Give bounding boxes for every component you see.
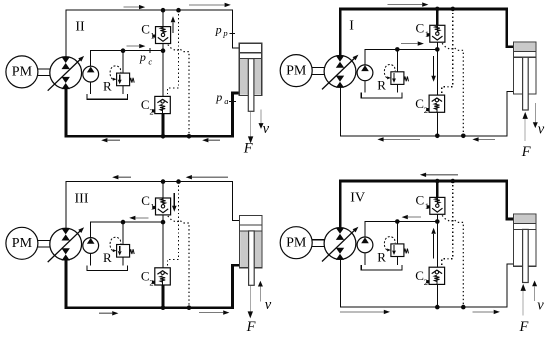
svg-text:IV: IV xyxy=(350,190,365,205)
svg-text:v: v xyxy=(537,297,544,313)
valve C2 I xyxy=(429,95,445,112)
shaft coupling I xyxy=(312,67,324,69)
tank II xyxy=(87,94,128,99)
valve C1 IV xyxy=(430,197,445,214)
svg-text:R: R xyxy=(103,79,112,94)
svg-text:PM: PM xyxy=(286,235,307,250)
wire: pump suction line (thin bottom loop) I xyxy=(340,87,513,136)
velocity arrow v III xyxy=(259,287,261,302)
wire: pump suction line (thin bottom loop) IV xyxy=(340,259,513,307)
piston rod I xyxy=(523,57,529,110)
svg-text:p: p xyxy=(215,22,222,36)
charge flow arrow I xyxy=(401,43,418,45)
wire: valve branch thin segments IV xyxy=(436,214,438,267)
wire: pump delivery line (bold top loop) IV xyxy=(340,181,513,228)
wire: pump delivery line (bold top loop) I xyxy=(340,9,513,56)
branch flow arrow III xyxy=(173,193,175,206)
cylinder IV xyxy=(514,215,535,224)
piston rod III xyxy=(249,231,255,285)
wire: bold stub from valve C2 to bottom rail III xyxy=(162,285,165,308)
wire: pump delivery line (thin top loop) III xyxy=(66,182,240,229)
svg-text:p: p xyxy=(139,50,146,64)
wire: pump return line (bold bottom loop) III xyxy=(66,260,240,308)
charge pump II xyxy=(83,66,99,82)
cylinder II xyxy=(240,59,261,95)
flow arrows II xyxy=(124,6,139,8)
junction nodes IV xyxy=(435,179,440,184)
relief valve R I xyxy=(391,72,404,85)
pilot line to valve C2 (dotted) III xyxy=(168,182,179,268)
svg-text:C: C xyxy=(141,22,150,37)
svg-text:2: 2 xyxy=(149,106,153,116)
variable displacement arrow II xyxy=(48,59,81,90)
wire: pump delivery line (thin top loop) II xyxy=(66,10,239,57)
velocity arrow v IV xyxy=(534,286,536,301)
wire: charge line to junction IV xyxy=(365,222,437,238)
svg-text:1: 1 xyxy=(150,30,154,40)
piston rod II xyxy=(248,59,254,112)
prime mover PM II xyxy=(6,56,38,88)
pump/motor unit P I xyxy=(324,56,356,88)
svg-text:c: c xyxy=(148,56,152,66)
pressure tap p_p II xyxy=(229,33,235,35)
svg-text:v: v xyxy=(538,121,545,137)
pressure tap p_a II xyxy=(229,101,236,103)
wire: charge line to junction III xyxy=(91,222,163,238)
pump/motor unit P II xyxy=(50,57,82,89)
wire: pump return line (bold bottom loop) II xyxy=(66,89,239,137)
prime mover PM I xyxy=(280,55,312,87)
flow arrows I xyxy=(387,4,422,6)
svg-text:F: F xyxy=(246,319,256,335)
pilot line from valve C1 to low-pressure rail (dotted) III xyxy=(168,216,189,308)
tank IV xyxy=(361,265,402,270)
shaft coupling III xyxy=(38,239,50,241)
junction nodes I xyxy=(435,7,440,12)
valve C2 IV xyxy=(429,267,445,284)
svg-text:p: p xyxy=(222,28,227,38)
svg-text:PM: PM xyxy=(12,65,33,80)
variable displacement arrow I xyxy=(322,58,355,89)
wire: relief valve drain III xyxy=(122,256,124,265)
svg-text:F: F xyxy=(519,319,529,335)
wire: relief valve supply III xyxy=(122,222,124,245)
wire: valve branch thin segments I xyxy=(436,42,438,95)
wire: relief valve supply II xyxy=(122,51,124,73)
svg-text:1: 1 xyxy=(425,201,429,211)
svg-text:R: R xyxy=(103,250,112,265)
wire: relief valve drain II xyxy=(122,85,124,94)
wire: bold stub into valve C1 IV xyxy=(436,181,439,197)
pilot line to valve C2 (dotted) IV xyxy=(442,181,453,267)
svg-text:C: C xyxy=(415,268,424,283)
charge pump I xyxy=(357,65,373,81)
cylinder I xyxy=(514,43,535,52)
svg-text:2: 2 xyxy=(424,277,428,287)
charge pump III xyxy=(83,238,99,254)
charge flow arrow II xyxy=(126,45,139,47)
force arrow F III xyxy=(249,286,251,311)
svg-text:F: F xyxy=(521,144,531,160)
wire: relief valve supply I xyxy=(396,49,398,72)
svg-text:F: F xyxy=(243,141,253,157)
pilot line to valve C2 (dotted) I xyxy=(442,9,453,95)
velocity arrow v I xyxy=(534,103,536,122)
wire: relief valve drain IV xyxy=(396,256,398,265)
svg-text:1: 1 xyxy=(150,202,154,212)
force arrow F II xyxy=(250,112,252,136)
force arrow F I xyxy=(524,119,526,141)
wire: relief valve drain I xyxy=(396,84,398,93)
relief valve pilot (dashed) IV xyxy=(384,237,395,250)
svg-text:2: 2 xyxy=(149,278,153,288)
charge pump IV xyxy=(357,237,373,253)
wire: charge pump drain IV xyxy=(364,253,366,265)
valve C2 II xyxy=(155,96,171,113)
svg-text:C: C xyxy=(141,269,150,284)
charge flow arrow III xyxy=(135,217,148,219)
shaft coupling IV xyxy=(312,239,324,241)
wire: charge pump drain II xyxy=(90,82,92,94)
svg-text:III: III xyxy=(75,191,89,206)
charge flow arrow IV xyxy=(408,216,421,218)
relief valve R III xyxy=(117,245,130,258)
svg-text:C: C xyxy=(415,96,424,111)
wire: bold stub from valve C2 to bottom rail II xyxy=(162,114,165,137)
branch flow arrow IV xyxy=(433,234,435,259)
cylinder III xyxy=(240,231,261,267)
svg-text:2: 2 xyxy=(424,105,428,115)
tank I xyxy=(361,93,402,98)
tank III xyxy=(87,265,128,270)
prime mover PM III xyxy=(6,227,38,259)
relief valve pilot (dashed) III xyxy=(110,237,121,250)
svg-text:a: a xyxy=(224,96,228,106)
valve C1 I xyxy=(430,25,445,42)
shaft coupling II xyxy=(38,68,50,70)
flow arrows IV xyxy=(426,174,458,176)
variable displacement arrow III xyxy=(48,231,81,262)
branch flow arrow II xyxy=(172,22,174,33)
relief valve R II xyxy=(117,73,130,86)
pressure tap p_c II xyxy=(149,48,151,53)
svg-text:v: v xyxy=(263,121,270,137)
svg-text:C: C xyxy=(416,193,425,208)
junction nodes II xyxy=(161,8,166,13)
relief valve pilot (dashed) I xyxy=(384,65,395,78)
wire: valve branch thin segments III xyxy=(162,182,164,198)
variable displacement arrow IV xyxy=(322,230,355,261)
svg-text:C: C xyxy=(141,193,150,208)
pilot line from valve C1 to low-pressure rail (dotted) II xyxy=(168,45,189,137)
force arrow F IV xyxy=(522,291,524,316)
svg-text:C: C xyxy=(416,20,425,35)
svg-text:v: v xyxy=(265,297,272,313)
wire: relief valve supply IV xyxy=(396,222,398,245)
relief valve pilot (dashed) II xyxy=(110,66,121,79)
wire: charge pump drain I xyxy=(364,81,366,93)
wire: charge line to junction I xyxy=(365,49,437,65)
svg-text:R: R xyxy=(377,250,386,265)
velocity arrow v II xyxy=(260,109,262,123)
flow arrows III xyxy=(118,176,131,178)
valve C1 III xyxy=(156,198,171,215)
pump/motor unit P IV xyxy=(324,228,356,260)
svg-text:p: p xyxy=(215,90,222,104)
svg-text:II: II xyxy=(75,20,85,35)
piston rod IV xyxy=(523,229,529,282)
pilot line to valve C2 (dotted) II xyxy=(168,10,179,96)
svg-text:I: I xyxy=(349,18,354,33)
pilot line from valve C1 to low-pressure rail (dotted) I xyxy=(442,43,463,136)
svg-text:PM: PM xyxy=(12,236,33,251)
wire: charge pump drain III xyxy=(90,253,92,265)
valve C1 II xyxy=(156,27,171,44)
junction nodes III xyxy=(161,179,166,184)
pilot line from valve C1 to low-pressure rail (dotted) IV xyxy=(442,215,463,307)
wire: valve branch thin segments II xyxy=(162,10,164,26)
prime mover PM IV xyxy=(280,227,312,259)
valve C2 III xyxy=(155,268,171,285)
svg-text:1: 1 xyxy=(425,29,429,39)
svg-text:PM: PM xyxy=(286,63,307,78)
branch flow arrow I xyxy=(433,56,435,76)
svg-text:R: R xyxy=(377,77,386,92)
pump/motor unit P III xyxy=(50,228,82,260)
wire: charge line to junction II xyxy=(91,51,163,67)
wire: bold stub into valve C1 I xyxy=(436,9,439,25)
relief valve R IV xyxy=(391,244,404,257)
svg-text:C: C xyxy=(141,97,150,112)
